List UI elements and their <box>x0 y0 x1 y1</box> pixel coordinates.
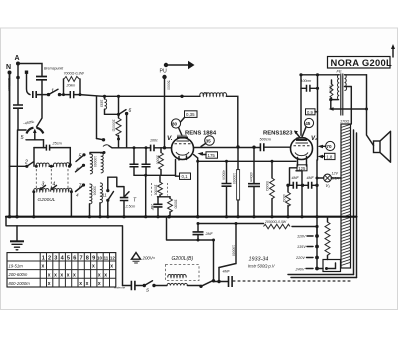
wire C1 down to tuning cap <box>37 81 43 128</box>
svg-text:11: 11 <box>102 193 107 198</box>
svg-text:135V: 135V <box>297 245 306 249</box>
switch contact 11 <box>102 189 113 202</box>
svg-text:x: x <box>104 272 107 278</box>
switch contact 6 <box>119 108 132 115</box>
tube V1 RENS1884 <box>172 135 194 160</box>
switch contact 4b <box>76 164 86 172</box>
tuning cap VC1 <box>21 120 44 141</box>
svg-text:5000Ω: 5000Ω <box>265 181 269 191</box>
svg-text:1833: 1833 <box>100 100 104 108</box>
wire x145.7 to main bus <box>145 175 147 216</box>
fuse box <box>317 260 341 272</box>
svg-text:50000: 50000 <box>167 81 171 91</box>
svg-text:200-600m: 200-600m <box>8 272 28 277</box>
bypass cap x158 <box>150 197 163 217</box>
wire sw11 to bus <box>107 177 109 217</box>
svg-text:400Ω: 400Ω <box>282 194 286 203</box>
decoupling resistor in dashed shield x160 <box>152 177 168 197</box>
svg-text:4MF: 4MF <box>307 176 315 180</box>
svg-text:V.: V. <box>167 135 173 142</box>
svg-text:70: 70 <box>326 144 332 149</box>
filter coil lower in mains lead <box>154 285 167 287</box>
PU pickup terminal <box>160 61 195 79</box>
boxed 1,8 with arrow <box>318 153 336 159</box>
table card <box>7 253 116 287</box>
cap x254 400cm <box>248 147 260 217</box>
svg-text:x: x <box>92 264 95 270</box>
svg-text:8: 8 <box>86 255 89 261</box>
padding cap 25cm <box>34 142 70 167</box>
svg-text:4: 4 <box>76 193 79 198</box>
svg-text:25cm: 25cm <box>52 142 62 146</box>
svg-text:0,1: 0,1 <box>182 174 189 179</box>
svg-text:12: 12 <box>110 255 115 260</box>
switch contact 7 <box>76 183 86 197</box>
svg-text:RENS1823: RENS1823 <box>263 131 293 137</box>
screen resistor x272 <box>265 160 274 217</box>
svg-text:x: x <box>60 272 63 278</box>
svg-text:x: x <box>42 264 45 270</box>
svg-text:2MF: 2MF <box>205 232 214 236</box>
feed wire x236 to mains switch <box>219 222 238 268</box>
return wire y240 <box>167 217 214 281</box>
grid wire arrow contact <box>97 138 113 148</box>
pilot lamp <box>316 172 342 189</box>
earth terminal N <box>6 64 12 75</box>
svg-text:x: x <box>67 272 70 278</box>
svg-text:50000: 50000 <box>329 85 333 94</box>
wire A-branch down <box>17 64 19 105</box>
osc coil lower left <box>90 184 92 204</box>
svg-text:x: x <box>48 281 51 287</box>
svg-text:100000: 100000 <box>154 185 158 196</box>
circled 70 with arrow <box>318 141 335 150</box>
svg-text:x: x <box>110 264 113 270</box>
wire N down left side <box>9 73 11 217</box>
svg-text:100000: 100000 <box>232 245 236 256</box>
ganged switch dashed links <box>36 169 68 189</box>
svg-text:20km: 20km <box>66 84 76 88</box>
cathode wire y175 <box>134 174 176 176</box>
ground symbol <box>10 226 24 250</box>
title box NORA G200L <box>328 57 393 69</box>
svg-text:V₃: V₃ <box>326 183 331 188</box>
svg-text:0,9: 0,9 <box>307 110 313 115</box>
svg-text:4MF: 4MF <box>223 270 231 274</box>
svg-text:11: 11 <box>104 255 109 260</box>
tone cap 100cm across primary <box>299 73 319 160</box>
arrow up top right <box>392 47 394 57</box>
svg-text:x: x <box>48 272 51 278</box>
svg-text:x: x <box>79 281 82 287</box>
svg-text:7: 7 <box>80 255 83 261</box>
secondary lower tap <box>345 87 352 125</box>
antenna trimmer stub <box>25 71 28 74</box>
svg-text:65: 65 <box>204 92 208 96</box>
svg-text:9: 9 <box>92 255 95 261</box>
electrolytic pair 4MF 4MF <box>286 176 318 189</box>
circled 45 <box>302 118 314 137</box>
grid resistor R2 20000 <box>112 96 122 148</box>
grid wire to C4 <box>112 147 150 149</box>
capacitor C1 (antenna series cap) <box>36 77 47 80</box>
svg-text:x: x <box>98 272 101 278</box>
output transformer FE <box>336 69 367 116</box>
svg-text:G200L(B): G200L(B) <box>172 256 194 262</box>
svg-text:Instr 500Ω p.V: Instr 500Ω p.V <box>248 264 276 269</box>
boxed 175 with arrow <box>198 152 218 158</box>
coupling coil on bus <box>200 93 227 97</box>
V2 plate lead up <box>300 75 302 136</box>
chassis frame left lower line <box>6 217 123 286</box>
wire 6 down to grid wire <box>126 114 128 148</box>
capacitor C2 on A branch <box>13 105 23 108</box>
osc coil stems to bus <box>90 153 105 217</box>
svg-text:2: 2 <box>24 160 28 166</box>
svg-text:3: 3 <box>54 255 57 261</box>
svg-text:175: 175 <box>208 153 216 158</box>
transformer bottom left wire <box>329 98 338 109</box>
resistor x170 30000 <box>168 197 178 217</box>
filter coil upper <box>168 275 186 278</box>
wire to grid bus <box>80 95 103 97</box>
cap 4MF in mains <box>214 270 233 288</box>
switch contact 2 <box>10 160 34 168</box>
coil L2 <box>32 188 73 193</box>
svg-text:500cm: 500cm <box>260 138 271 142</box>
svg-text:4MF: 4MF <box>292 176 300 180</box>
svg-text:400cm: 400cm <box>222 170 226 180</box>
svg-text:30000: 30000 <box>174 200 178 209</box>
wire x17 down to bus <box>16 130 19 217</box>
osc coil upper right <box>101 153 103 173</box>
primary lower resistor <box>329 80 334 100</box>
secondary right wire down <box>367 75 374 146</box>
wire A to C1 <box>18 64 42 76</box>
trimmer cap T <box>108 177 137 217</box>
tube V2 RENS1823 <box>291 137 313 166</box>
cathode caps pair <box>130 146 151 175</box>
PU lead down to grid wire <box>164 77 166 148</box>
svg-text:2MF: 2MF <box>150 204 154 210</box>
osc coil upper left <box>90 154 92 174</box>
coil L2 stems to bus <box>34 192 72 217</box>
mains lead-in cap <box>113 281 144 291</box>
B+ line y223.5 to dropping resistor <box>198 223 264 225</box>
V1 bottom lead x197.7 <box>194 155 198 217</box>
bus corner down x237.5 <box>226 96 238 147</box>
antenna coil x104 <box>104 96 106 99</box>
svg-text:2: 2 <box>48 255 51 261</box>
svg-text:RENS 1884: RENS 1884 <box>185 131 217 137</box>
selector dropping resistor <box>325 217 330 260</box>
grid leak resistor column x161 <box>156 148 164 176</box>
voltage selector taps <box>295 225 319 272</box>
wire varcap to bandfilter <box>43 140 45 148</box>
screen cap x226 <box>222 160 232 217</box>
coupling cap 500cm <box>260 138 291 152</box>
svg-text:125: 125 <box>298 166 306 171</box>
svg-text:45: 45 <box>305 121 311 126</box>
switch second pole <box>199 268 220 288</box>
contacts 3 and 4 <box>40 182 57 191</box>
svg-text:100000: 100000 <box>232 173 236 184</box>
switch contact 5 <box>76 153 86 161</box>
svg-text:x: x <box>54 272 57 278</box>
antenna terminal A <box>15 55 21 66</box>
svg-text:G200UL: G200UL <box>38 197 56 203</box>
boxed 125 cathode <box>290 165 308 186</box>
dotted mains line to selector <box>233 280 352 282</box>
circled 35 <box>201 136 214 147</box>
svg-text:PU: PU <box>160 69 167 75</box>
cathode resistor box 0,1 <box>176 160 191 180</box>
svg-text:400cm: 400cm <box>249 172 253 182</box>
main chassis bus <box>6 216 357 218</box>
svg-text:80: 80 <box>172 122 178 127</box>
wire osc top to coil x104 <box>103 151 106 154</box>
svg-text:1: 1 <box>51 89 54 95</box>
svg-text:1: 1 <box>42 255 45 261</box>
svg-text:1,8: 1,8 <box>326 154 333 159</box>
wire plate to transformer <box>301 74 336 76</box>
svg-text:30000: 30000 <box>156 155 160 164</box>
svg-text:170Ω: 170Ω <box>340 120 349 124</box>
heater line x317 <box>316 160 318 235</box>
svg-text:100000: 100000 <box>93 156 97 167</box>
frame bottom right corner <box>288 275 357 278</box>
svg-text:240V: 240V <box>295 268 305 272</box>
svg-text:x: x <box>98 281 101 287</box>
svg-text:19-51m: 19-51m <box>9 264 24 269</box>
svg-text:N: N <box>6 64 11 71</box>
svg-text:12V: 12V <box>332 172 339 176</box>
main grid bus y96 <box>103 95 200 97</box>
svg-text:1933-34: 1933-34 <box>249 257 269 263</box>
screen wire y161 <box>198 160 296 162</box>
bus junction dots <box>8 215 11 218</box>
coil L1 <box>35 163 71 168</box>
svg-text:10: 10 <box>97 255 102 260</box>
boxed 0,9 <box>306 109 318 115</box>
switch contact 1 <box>47 89 61 97</box>
svg-text:1000cm: 1000cm <box>7 78 11 91</box>
right leg of bandfilter <box>69 148 71 167</box>
svg-text:220V: 220V <box>295 256 305 260</box>
osc coil lower right <box>100 183 102 203</box>
svg-text:0,35: 0,35 <box>186 112 195 117</box>
svg-text:6: 6 <box>129 108 132 114</box>
cathode stem x296 to bus <box>296 171 302 217</box>
svg-text:110V: 110V <box>297 235 306 239</box>
svg-text:100cm: 100cm <box>301 79 312 83</box>
svg-text:Bremspunkt: Bremspunkt <box>44 67 64 71</box>
node on bus <box>117 95 120 98</box>
bias resistor x288 <box>282 185 290 216</box>
circled 80 <box>171 119 182 136</box>
svg-text:A: A <box>15 55 20 62</box>
dropping resistor horizontal 70000 <box>264 220 318 229</box>
svg-text:800-2000m: 800-2000m <box>9 281 31 286</box>
svg-text:6: 6 <box>73 255 76 261</box>
anode wire V1 to V2 <box>194 147 260 149</box>
wire coil to R column <box>97 96 119 138</box>
wire y196.8 <box>158 196 171 198</box>
boxed 0,35 <box>181 111 198 122</box>
svg-text:100c: 100c <box>150 139 158 143</box>
svg-text:x: x <box>73 272 76 278</box>
svg-text:NORA G200L: NORA G200L <box>331 57 393 68</box>
svg-text:4: 4 <box>76 167 79 172</box>
svg-text:20000Ω: 20000Ω <box>112 120 116 132</box>
svg-text:7000Ω-0,3W: 7000Ω-0,3W <box>64 72 85 76</box>
earth triangle 200V <box>132 253 156 264</box>
speaker feed wire with arrowhead <box>329 107 368 111</box>
svg-text:2,5cm: 2,5cm <box>125 205 136 209</box>
field coil / mains dropper bar <box>341 124 351 268</box>
speaker <box>374 131 391 162</box>
svg-text:200V≈: 200V≈ <box>142 256 156 261</box>
anode load resistor x238 <box>232 147 240 217</box>
resistor R1 7000ohm with parallel cap <box>62 72 84 99</box>
svg-text:35: 35 <box>206 139 212 144</box>
svg-text:20000Ω-0,5W: 20000Ω-0,5W <box>264 220 287 224</box>
mains frame right verticals <box>354 130 357 278</box>
svg-text:30000: 30000 <box>93 186 97 195</box>
capacitor C3 (series, antenna circuit) <box>33 91 36 98</box>
node on bus <box>103 95 106 98</box>
grid coupling cap C4 100cm <box>150 139 172 152</box>
wire below C2 to var cap line <box>18 109 26 131</box>
svg-text:x: x <box>86 281 89 287</box>
mains switch S <box>143 281 156 293</box>
svg-text:5: 5 <box>67 255 70 261</box>
smoothing cap 2MF <box>193 222 214 240</box>
node under A <box>16 76 20 80</box>
node on bus <box>180 95 183 98</box>
mains filter dashed box <box>166 265 200 281</box>
svg-text:FE: FE <box>337 69 342 74</box>
